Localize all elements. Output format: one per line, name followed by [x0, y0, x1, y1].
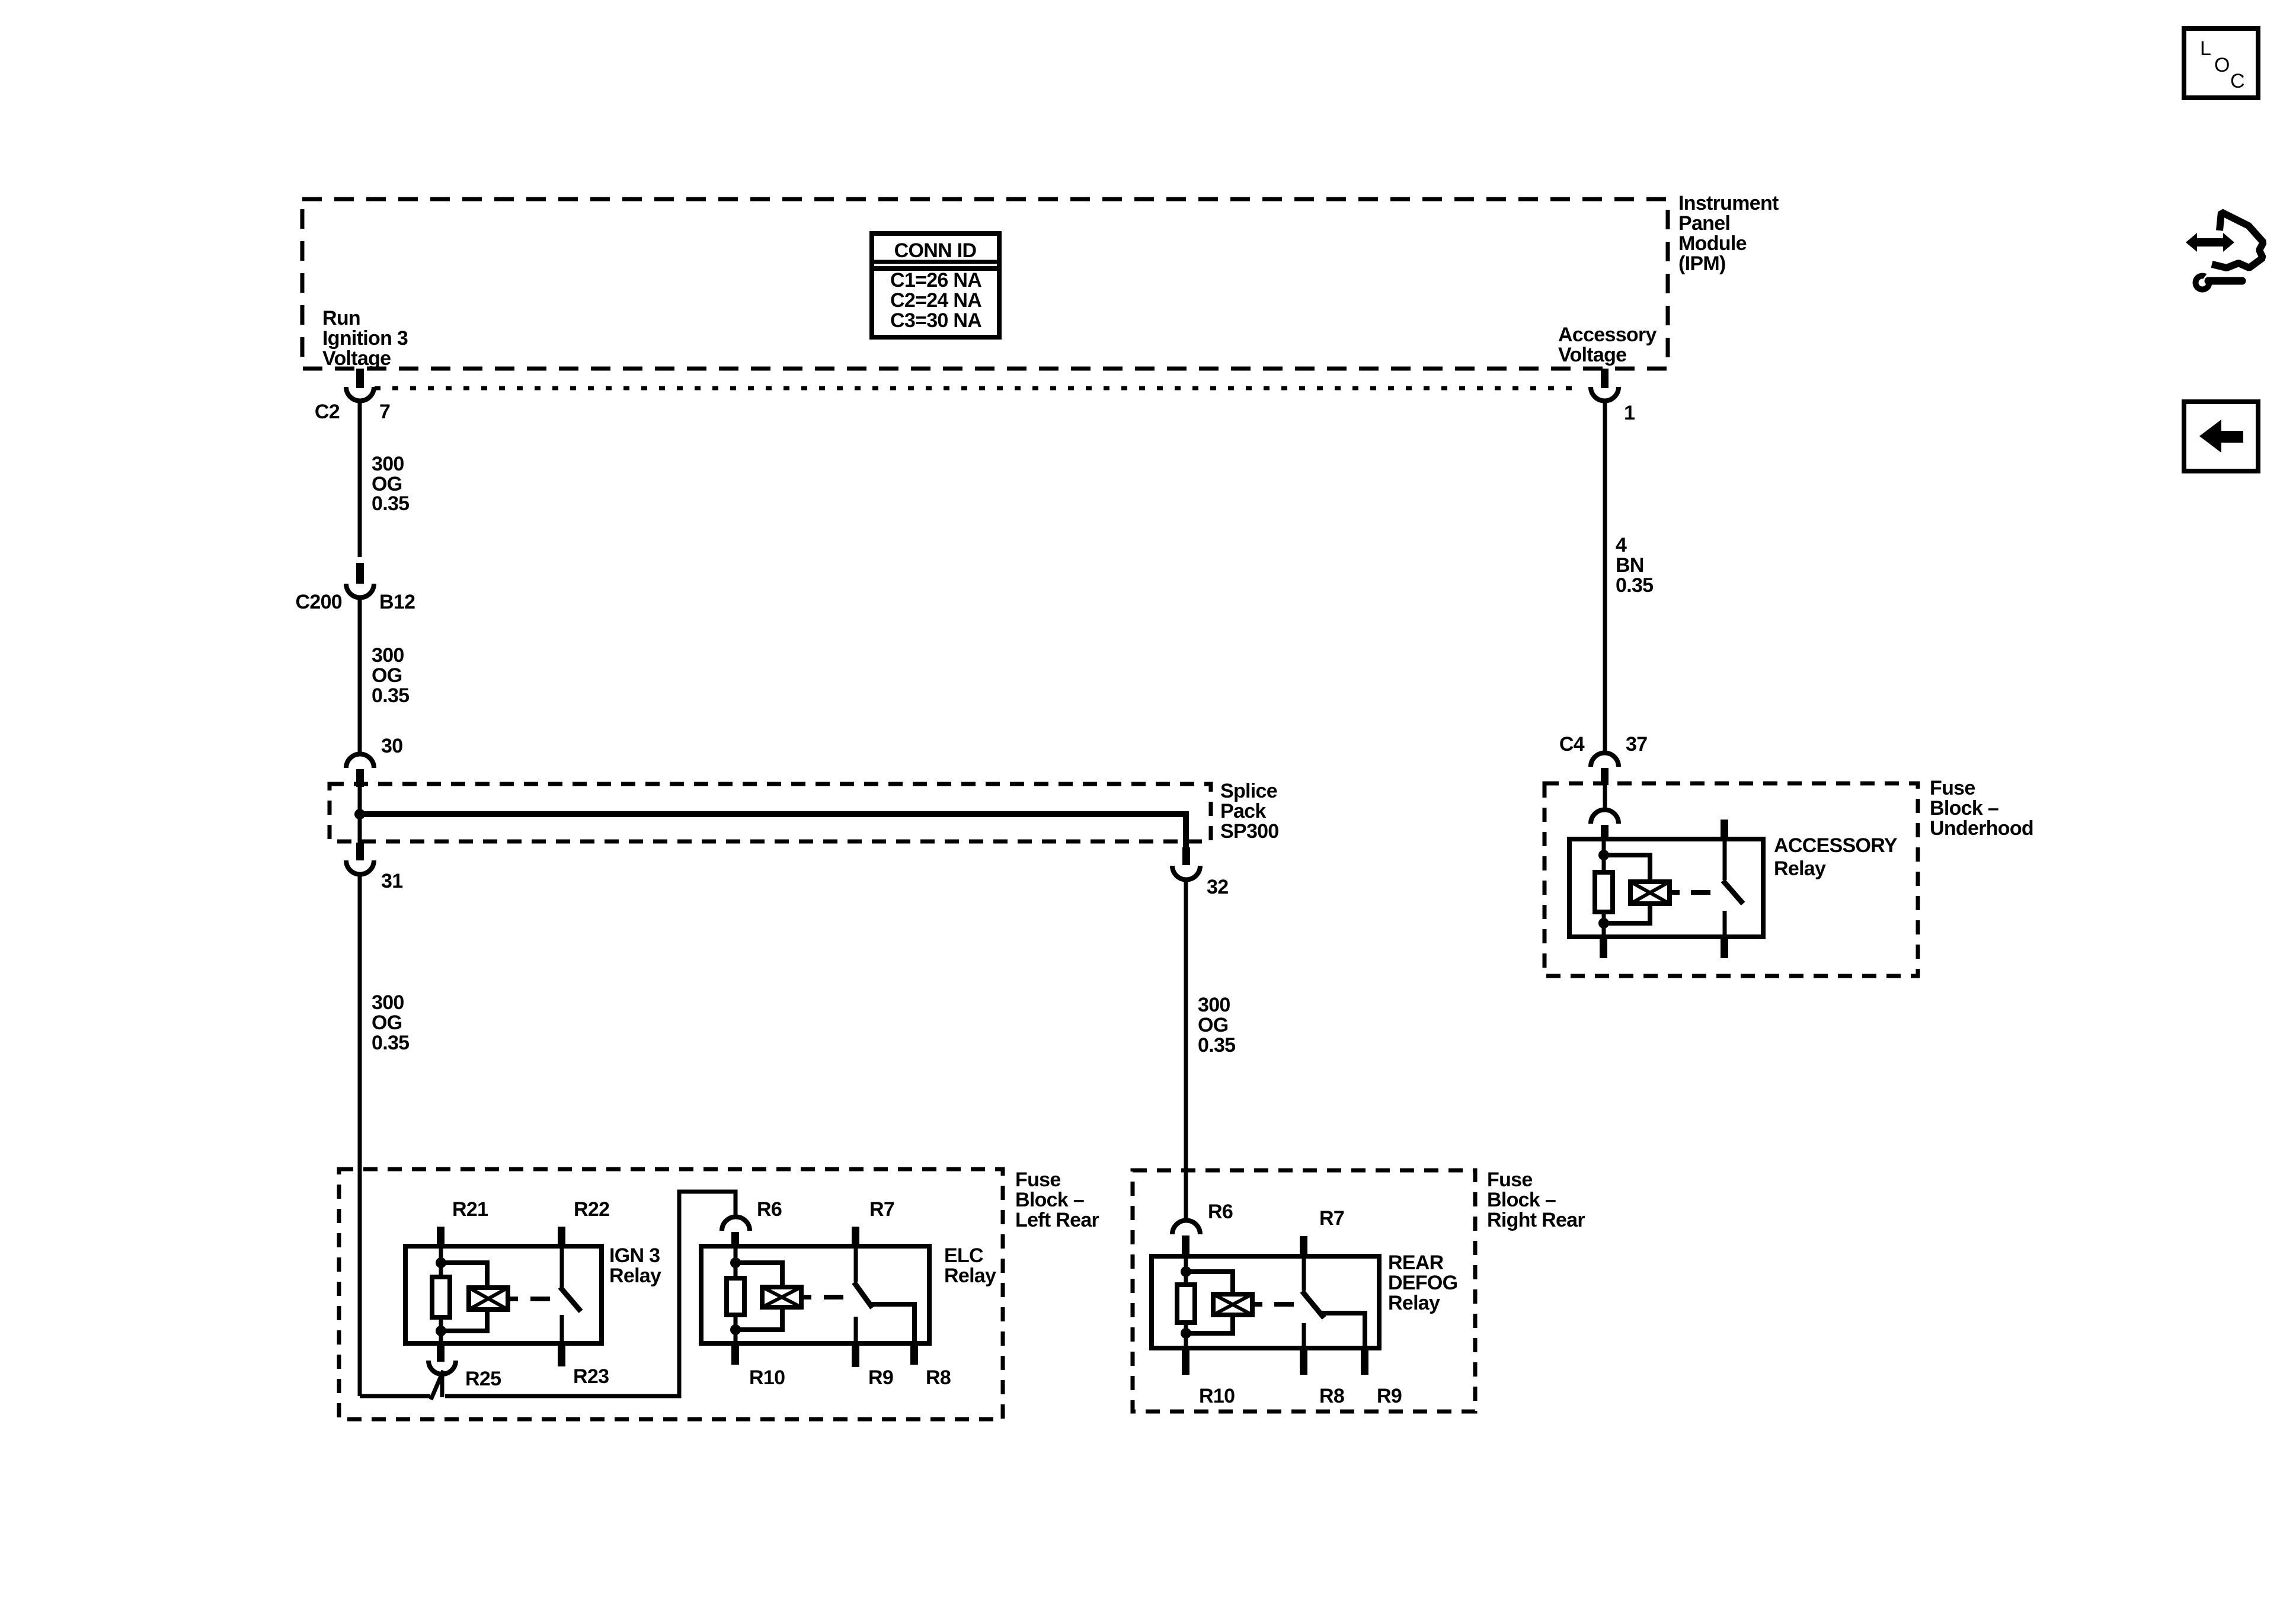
relay ELC box: [701, 1244, 996, 1343]
svg-text:0.35: 0.35: [372, 684, 409, 707]
icon LOC box: [2184, 28, 2258, 98]
wire left rear internal run: [360, 1192, 736, 1396]
svg-text:R21: R21: [452, 1198, 488, 1221]
svg-text:Voltage: Voltage: [1558, 344, 1626, 366]
wire ign3 resistor bottom: [439, 1317, 443, 1343]
svg-text:OG: OG: [372, 664, 402, 687]
table CONN ID: [872, 233, 999, 337]
label Fuse Block - Right Rear: [1487, 1169, 1585, 1231]
wire elc resistor bottom: [734, 1315, 738, 1343]
svg-text:R6: R6: [1208, 1201, 1233, 1223]
wire accessory relay coil pin: [1602, 839, 1606, 872]
svg-text:R25: R25: [465, 1368, 501, 1390]
pin R22: [558, 1198, 609, 1246]
svg-text:C3=30 NA: C3=30 NA: [890, 309, 981, 332]
svg-text:1: 1: [1624, 402, 1635, 424]
svg-text:R9: R9: [868, 1366, 893, 1389]
svg-text:ELC: ELC: [944, 1244, 983, 1267]
resistor accessory relay: [1595, 872, 1613, 912]
connector pin 32 out of splice pack: [1172, 847, 1228, 898]
svg-text:SP300: SP300: [1220, 820, 1279, 843]
svg-text:R9: R9: [1377, 1385, 1402, 1407]
pin R7 elc: [852, 1198, 894, 1246]
wire splice bus SP300: [360, 787, 1186, 849]
svg-text:300: 300: [372, 453, 404, 475]
switch IGN 3 relay: [560, 1246, 581, 1343]
connector C200 pin B12: [296, 563, 415, 613]
relay IGN 3 box: [405, 1244, 661, 1343]
svg-text:300: 300: [372, 644, 404, 667]
svg-text:R7: R7: [1319, 1207, 1344, 1230]
module box Instrument Panel Module (IPM): [302, 199, 1668, 369]
wire C4 to accessory relay socket: [1603, 785, 1607, 808]
svg-text:Fuse: Fuse: [1487, 1169, 1533, 1191]
svg-text:BN: BN: [1616, 554, 1644, 577]
junction accessory coil top: [1598, 850, 1609, 860]
relay REAR DEFOG box: [1152, 1251, 1457, 1348]
svg-text:R10: R10: [1199, 1385, 1235, 1407]
connector pin 31 out of splice pack: [346, 814, 402, 892]
svg-text:R10: R10: [749, 1366, 785, 1389]
svg-text:Right Rear: Right Rear: [1487, 1209, 1585, 1231]
svg-text:Fuse: Fuse: [1015, 1169, 1061, 1191]
wire 300 OG 0.35 (C2-7 to C200): [360, 402, 409, 557]
svg-text:C1=26 NA: C1=26 NA: [890, 269, 981, 292]
switch ACCESSORY relay: [1721, 820, 1743, 937]
label Fuse Block - Underhood: [1930, 777, 2033, 840]
resistor REAR DEFOG relay: [1177, 1285, 1195, 1323]
svg-text:Relay: Relay: [1388, 1292, 1440, 1314]
svg-text:C2: C2: [315, 401, 340, 423]
svg-text:IGN 3: IGN 3: [609, 1244, 660, 1267]
svg-text:R7: R7: [869, 1198, 894, 1221]
svg-text:C4: C4: [1559, 733, 1585, 756]
dashed actuation link ign3: [530, 1297, 550, 1301]
label Accessory Voltage: [1558, 324, 1657, 366]
dashed actuation link defog: [1274, 1302, 1294, 1307]
label Run Ignition 3 Voltage: [322, 307, 408, 370]
svg-text:OG: OG: [372, 1012, 402, 1034]
wire elc coil pin: [734, 1246, 738, 1278]
svg-text:Instrument: Instrument: [1678, 192, 1779, 215]
pin 30 label: [381, 735, 402, 757]
coil REAR DEFOG relay: [1186, 1272, 1262, 1333]
svg-text:Relay: Relay: [944, 1265, 996, 1287]
svg-text:37: 37: [1626, 733, 1647, 756]
elc bottom stubs R10 R9 R8: [731, 1343, 951, 1389]
svg-text:Fuse: Fuse: [1930, 777, 1975, 799]
svg-text:31: 31: [381, 870, 402, 892]
svg-text:32: 32: [1207, 876, 1228, 898]
svg-text:R22: R22: [574, 1198, 609, 1221]
coil ELC relay: [736, 1263, 811, 1330]
connector C2 pin 7: [315, 369, 390, 423]
wire 300 OG 0.35 (C200 to SP300 pin 30): [360, 597, 409, 752]
svg-text:300: 300: [372, 991, 404, 1014]
svg-text:Voltage: Voltage: [322, 347, 391, 370]
svg-text:4: 4: [1616, 534, 1627, 556]
svg-text:Splice: Splice: [1220, 780, 1277, 802]
svg-text:0.35: 0.35: [372, 492, 409, 515]
svg-text:Pack: Pack: [1220, 800, 1266, 822]
svg-text:0.35: 0.35: [1198, 1034, 1235, 1057]
pin R21: [437, 1198, 488, 1246]
svg-text:OG: OG: [1198, 1014, 1229, 1036]
junction elc coil top: [730, 1257, 741, 1268]
splice pack SP300 box: [330, 784, 1211, 841]
wire accessory resistor bottom: [1602, 912, 1606, 937]
svg-text:CONN ID: CONN ID: [894, 239, 977, 262]
svg-text:B12: B12: [379, 591, 415, 613]
wire 300 OG 0.35 (pin 31 to Fuse Block Left Rear): [360, 874, 409, 1396]
junction accessory coil bottom: [1598, 918, 1609, 929]
resistor IGN 3 relay: [432, 1277, 450, 1317]
connector face dotted line (IPM C2 face): [375, 386, 1582, 391]
label Splice Pack SP300: [1220, 780, 1279, 843]
icon electrical repair (arrow + outline + wrench): [2186, 212, 2263, 293]
svg-text:C: C: [2230, 70, 2245, 92]
svg-text:Relay: Relay: [609, 1265, 661, 1287]
connector IPM pin 1: [1591, 369, 1635, 424]
svg-text:R6: R6: [757, 1198, 782, 1221]
coil ACCESSORY relay: [1604, 855, 1680, 923]
svg-text:L: L: [2200, 37, 2211, 60]
svg-text:C2=24 NA: C2=24 NA: [890, 289, 981, 312]
connector accessory relay socket pin: [1591, 809, 1619, 840]
junction elc coil bottom: [730, 1324, 741, 1335]
svg-text:C200: C200: [296, 591, 342, 613]
wire 4 BN 0.35 (pin 1 to C4-37): [1605, 402, 1653, 752]
wire defog coil pin: [1184, 1256, 1188, 1285]
svg-text:R23: R23: [573, 1365, 609, 1388]
svg-text:R8: R8: [926, 1366, 951, 1389]
dashed actuation link elc: [824, 1295, 843, 1299]
junction ign3 coil bottom: [436, 1326, 446, 1336]
svg-text:30: 30: [381, 735, 402, 757]
connector R6 right rear (REAR DEFOG relay feed): [1172, 1201, 1233, 1256]
fuse block right rear dashed box: [1133, 1170, 1475, 1411]
junction ign3 coil top: [436, 1257, 446, 1268]
resistor ELC relay: [727, 1278, 744, 1315]
svg-text:Panel: Panel: [1678, 212, 1730, 235]
svg-text:Run: Run: [322, 307, 360, 329]
svg-text:O: O: [2214, 54, 2230, 76]
svg-text:ACCESSORY: ACCESSORY: [1774, 834, 1898, 857]
junction defog coil bottom: [1181, 1328, 1191, 1339]
connector pin 30 into splice pack: [346, 754, 374, 787]
coil IGN 3 relay: [441, 1263, 518, 1331]
junction inside SP300: [354, 809, 365, 820]
svg-text:0.35: 0.35: [372, 1032, 409, 1054]
connector R25 breakaway: [428, 1361, 456, 1400]
icon back arrow box: [2184, 402, 2258, 471]
fuse block left rear dashed box: [339, 1169, 1003, 1419]
switch REAR DEFOG relay: [1302, 1256, 1365, 1348]
pin R7 defog: [1300, 1207, 1344, 1256]
connector R6 left rear (ELC relay feed): [722, 1198, 782, 1246]
dashed actuation link accessory: [1691, 890, 1710, 895]
fuse block underhood dashed box: [1544, 783, 1918, 976]
svg-text:Block –: Block –: [1015, 1189, 1084, 1211]
svg-text:(IPM): (IPM): [1678, 252, 1726, 275]
svg-text:0.35: 0.35: [1616, 574, 1653, 597]
svg-text:Block –: Block –: [1930, 797, 1998, 820]
svg-text:R8: R8: [1319, 1385, 1344, 1407]
label Instrument Panel Module (IPM): [1678, 192, 1779, 275]
defog bottom stubs R10 R8 R9: [1182, 1348, 1402, 1407]
connector C4 pin 37: [1559, 733, 1648, 785]
wire 300 OG 0.35 (pin 32 to Fuse Block Right Rear): [1186, 879, 1235, 1221]
svg-text:Block –: Block –: [1487, 1189, 1556, 1211]
relay ACCESSORY box: [1569, 834, 1898, 937]
svg-text:Accessory: Accessory: [1558, 324, 1657, 346]
wire ign3 coil pin: [439, 1246, 443, 1277]
switch ELC relay: [854, 1246, 914, 1343]
svg-text:Ignition 3: Ignition 3: [322, 327, 408, 350]
wire defog resistor bottom: [1184, 1323, 1188, 1348]
ign3 bottom stubs R25 R23: [437, 1343, 609, 1390]
svg-text:7: 7: [379, 401, 390, 423]
label Fuse Block - Left Rear: [1015, 1169, 1099, 1231]
svg-text:Underhood: Underhood: [1930, 817, 2033, 840]
svg-text:Module: Module: [1678, 232, 1747, 255]
accessory relay bottom stubs: [1600, 937, 1728, 958]
svg-text:DEFOG: DEFOG: [1388, 1272, 1457, 1294]
junction defog coil top: [1181, 1266, 1191, 1277]
svg-text:REAR: REAR: [1388, 1251, 1444, 1274]
svg-text:Left Rear: Left Rear: [1015, 1209, 1099, 1231]
svg-text:300: 300: [1198, 994, 1230, 1016]
svg-text:Relay: Relay: [1774, 857, 1826, 880]
